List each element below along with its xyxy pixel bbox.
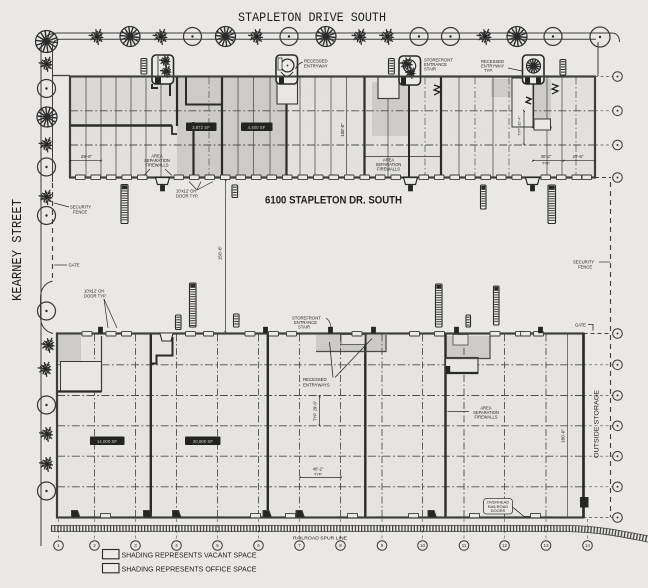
tree C at x192.5 bbox=[184, 28, 202, 46]
Kearney Street outer curb line bbox=[41, 33, 612, 546]
top building entry stoop 1 bbox=[156, 178, 170, 185]
dumpster at stair 1 bbox=[141, 59, 147, 75]
SF label box bottom west bbox=[90, 437, 125, 446]
dimension line 180-0 east bbox=[567, 334, 569, 517]
tree S at y369 bbox=[38, 362, 52, 377]
tree at street corner NE bbox=[590, 27, 610, 47]
tree C at y88.5 bbox=[38, 80, 56, 98]
area separation firewalls label middle bbox=[365, 156, 442, 158]
railroad rail south bbox=[51, 532, 648, 543]
office room east door mark bbox=[446, 366, 450, 373]
top building demising wall x193 lower bbox=[192, 122, 194, 177]
storefront entrance stair 4 bbox=[523, 55, 545, 84]
bottom building demising wall x365 bbox=[364, 334, 366, 517]
tree S at x161 bbox=[153, 29, 168, 45]
dimension 30-2 right bbox=[533, 160, 595, 162]
top building demising wall x364 bbox=[363, 77, 365, 177]
street corner drop to building bbox=[597, 42, 599, 76]
tree C at y167 bbox=[38, 158, 56, 176]
entry notch middle shaded area bbox=[341, 335, 365, 345]
trailer mid yard 1 bbox=[190, 283, 197, 327]
SF label box tenant 2a bbox=[186, 123, 217, 132]
dumpster mid yard 2 bbox=[234, 314, 240, 327]
tree C at y215.5 bbox=[38, 207, 56, 225]
street corner curve top right bbox=[612, 33, 620, 42]
right shaded area outline bbox=[446, 336, 490, 359]
trailer mid yard 2 bbox=[436, 284, 443, 327]
tree C at y311 bbox=[38, 302, 56, 320]
bottom building dock doors north edge bbox=[82, 332, 92, 336]
top building demising wall x177 upper bbox=[176, 77, 178, 126]
gate bracket east bbox=[588, 325, 593, 331]
tree S at x256.5 bbox=[248, 29, 263, 45]
top building dash-dot column lines bbox=[208, 78, 210, 177]
top building north edge over stairs bbox=[70, 76, 595, 78]
tree F at y117 bbox=[37, 107, 57, 127]
storefront entrance stair 1 bbox=[152, 55, 174, 84]
tree C at y405 bbox=[38, 396, 56, 414]
top building floor slab bbox=[70, 77, 595, 178]
security fence east side dashed bbox=[610, 182, 612, 517]
tree S at y464 bbox=[39, 457, 53, 472]
bottom building south entry stoops bbox=[72, 511, 81, 518]
tree C at x553 bbox=[544, 28, 562, 46]
leader to stair 4 bbox=[508, 68, 522, 71]
SF label box bottom mid bbox=[185, 437, 221, 446]
spiral stair fan in stair 4 bbox=[527, 59, 541, 73]
tree F at x517 bbox=[507, 27, 527, 47]
bottom building floor slab bbox=[57, 334, 584, 518]
railroad spur line ties bbox=[51, 529, 648, 540]
trailer at top building dock 2 bbox=[548, 185, 556, 224]
top building vestibule below stair 4 bbox=[512, 78, 533, 127]
top building shaded tenant 4 upper bbox=[491, 79, 551, 97]
leader arrows firewalls left bbox=[144, 169, 150, 176]
top building shaded vacant tenant middle bbox=[177, 78, 287, 177]
top building thin column lines bbox=[85, 78, 87, 177]
top building demising wall x409 bbox=[408, 82, 410, 177]
stair 1 entry walls bbox=[152, 84, 158, 88]
wall connector street to building NW corner bbox=[52, 75, 70, 77]
trailer at top building dock 1 bbox=[121, 185, 128, 224]
bottom building demising wall x267 bbox=[267, 334, 269, 517]
SF label box tenant 2b bbox=[241, 123, 273, 132]
bottom building north entry stoops bbox=[98, 327, 103, 333]
leaders 10x12 bottom bbox=[104, 299, 108, 328]
overhead railroad doors label bbox=[484, 499, 513, 515]
tree over stair 1 upper bbox=[159, 55, 170, 67]
office room east heavy south wall bbox=[446, 372, 479, 374]
dimension line 150-6 bbox=[225, 180, 227, 332]
top building shaded tenant 3 bbox=[372, 82, 409, 136]
top building entry stoop 3 bbox=[526, 178, 540, 185]
tree over stair 1 lower bbox=[160, 66, 171, 78]
tree S at y434 bbox=[39, 427, 53, 442]
tree C at y491 bbox=[38, 482, 56, 500]
top building demising wall x441 bbox=[440, 77, 442, 177]
scan grain overlay bbox=[0, 0, 1, 1]
leader overhead doors bbox=[513, 507, 537, 517]
Kearney Street inner curb line bbox=[53, 39, 597, 182]
bottom building dock doors south edge bbox=[101, 513, 111, 517]
tree C at x419 bbox=[410, 28, 428, 46]
office room east top right bbox=[446, 358, 479, 374]
top building dash-dot grid line B bbox=[70, 144, 595, 146]
trailer small at dock 3 bbox=[481, 185, 487, 209]
top building vestibule below stair 2 bbox=[277, 77, 298, 104]
leader security fence east bbox=[599, 261, 610, 263]
leader gate west bbox=[54, 264, 67, 266]
bottom building demising wall x150 bbox=[150, 334, 152, 517]
tree S at x387.5 bbox=[379, 29, 394, 45]
dimension 29-6 typ vertical middle bbox=[319, 397, 321, 426]
stub dash to bubble bottom building south bbox=[584, 517, 614, 519]
dumpster mid yard 1 bbox=[176, 315, 182, 330]
fence stub from bottom building to east fence gate bbox=[584, 333, 612, 335]
leader to stair 2 bbox=[296, 62, 304, 69]
dumpster at stair 3 bbox=[389, 59, 395, 75]
tree S at y64 bbox=[39, 57, 53, 72]
legend box vacant bbox=[103, 550, 120, 559]
top building demising wall x533 upper bbox=[532, 77, 534, 128]
bottom building demising wall x445 bbox=[444, 334, 446, 517]
bottom building shaded entry area middle bbox=[316, 335, 386, 352]
bottom building dash-dot row lines bbox=[57, 364, 584, 366]
driveway curve at Kearney Street bbox=[41, 281, 54, 334]
top building partition jog bbox=[172, 126, 177, 135]
vestibule jog walls at wall x151 bbox=[151, 337, 173, 364]
dumpster between buildings 1 bbox=[232, 185, 238, 198]
top building office partition wall y125 bbox=[70, 124, 172, 126]
fence stub from top building to east fence bbox=[595, 177, 611, 179]
north entry door left tenant bbox=[160, 334, 173, 342]
bottom building heavy east wall bbox=[582, 334, 585, 518]
door zigzag at wall x441 bbox=[434, 85, 440, 95]
railroad rail north bbox=[51, 525, 648, 536]
leaders recessed entryways bbox=[335, 339, 372, 378]
leader firewalls bottom bbox=[448, 411, 470, 413]
column bubbles 1-14 bbox=[54, 541, 64, 551]
tree C at x289 bbox=[280, 28, 298, 46]
leaders 10x12 top bbox=[189, 182, 197, 191]
bottom building shaded entry area left bbox=[58, 335, 82, 363]
top building shaded tenant 4 column bbox=[533, 79, 551, 128]
top building vestibule below stair 3 bbox=[378, 77, 399, 99]
top building dash-dot grid line A bbox=[70, 110, 595, 112]
entry notch right shaded area bbox=[453, 335, 468, 346]
storefront entrance stair 2 bbox=[276, 55, 298, 84]
bottom building office room west bbox=[61, 362, 102, 392]
tree F at x225.5 bbox=[216, 27, 236, 47]
leader storefront bottom bbox=[326, 318, 331, 333]
stub dash to bubble top building north bbox=[595, 76, 613, 78]
trailer mid yard 3 bbox=[494, 286, 500, 325]
row bubbles east top building bbox=[613, 72, 623, 82]
dumpster at stair 4 bbox=[560, 60, 566, 76]
tree over stair 3 bbox=[400, 57, 413, 71]
door zigzag at wall x533 lower bbox=[526, 97, 531, 104]
top building vestibule wall below stair 1 bbox=[186, 77, 222, 105]
top building entry stoop 2 bbox=[404, 178, 418, 185]
west office room east wall full bbox=[101, 336, 103, 392]
bottom building dash-dot column lines bbox=[94, 335, 96, 518]
office room west heavy south wall bbox=[58, 390, 102, 392]
tree F at x326 bbox=[316, 27, 336, 47]
railroad door east wall bbox=[580, 497, 589, 508]
top building shaded office area left bbox=[71, 78, 178, 126]
door zigzag at wall x551 bbox=[552, 84, 558, 94]
dumpster mid yard 4 bbox=[466, 315, 471, 327]
bubble drop line col 1 bbox=[58, 519, 60, 541]
tree C at x450.5 bbox=[442, 28, 460, 46]
bottom building shaded entry area right bbox=[446, 336, 490, 359]
tree S at y345 bbox=[41, 338, 55, 353]
leader security fence west bbox=[54, 203, 69, 207]
legend box office bbox=[103, 564, 120, 573]
row bubbles east bottom building bbox=[613, 329, 623, 339]
top building demising wall x222 bbox=[221, 77, 223, 177]
top building firewall return x533 bbox=[533, 127, 552, 129]
top building small room right bbox=[534, 119, 551, 130]
top building demising wall x286 bbox=[285, 77, 287, 177]
storefront entrance stair 3 bbox=[399, 56, 421, 85]
tree F at x130 bbox=[120, 27, 140, 47]
tree S at x97 bbox=[89, 29, 104, 45]
middle shaded area outline bbox=[316, 335, 386, 352]
tree F at y41.5 bbox=[36, 31, 58, 53]
tree S at y144.5 bbox=[39, 137, 53, 152]
tree S at x485 bbox=[477, 29, 492, 45]
bottom building outline bbox=[57, 334, 584, 518]
tree S at y197 bbox=[39, 190, 53, 205]
top building dock doors along south edge bbox=[76, 175, 86, 180]
gate dashed segment on Kearney Street bbox=[52, 183, 54, 280]
top building outline bbox=[70, 77, 595, 178]
tree S at x360 bbox=[352, 29, 367, 45]
dimension 32-4 vertical bbox=[523, 111, 525, 145]
